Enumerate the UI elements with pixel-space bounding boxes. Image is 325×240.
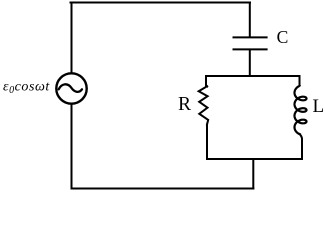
capacitor C bottom plate [233,48,268,50]
resistor R [199,86,209,124]
svg-text:C: C [277,27,289,47]
svg-text:R: R [178,94,191,115]
svg-text:ε0cosωt: ε0cosωt [3,79,50,96]
wire top rail [71,2,251,4]
source sine symbol [59,84,82,92]
wire R branch bottom [206,125,208,160]
wire bottom stem [252,159,254,189]
wire L branch top [299,76,301,86]
wire RL top bus [206,75,300,77]
wire bottom rail [72,188,254,190]
capacitor C top plate [233,36,268,38]
wire capacitor top stem [249,3,251,37]
svg-text:L: L [313,96,325,117]
wire left vertical (top) [71,3,73,74]
wire capacitor bottom stem [249,50,251,76]
wire L branch bottom [300,134,302,159]
wire left vertical (bottom) [71,104,73,189]
inductor L [295,86,307,135]
source V1 [56,73,86,103]
wire R branch top [206,76,207,87]
wire RL bottom bus [207,158,302,160]
